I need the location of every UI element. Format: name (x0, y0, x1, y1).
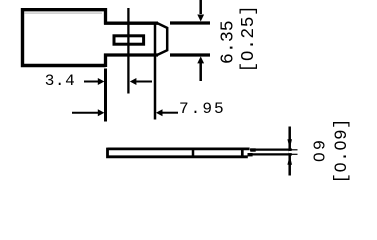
svg-text:3.4: 3.4 (45, 72, 76, 90)
svg-text:[0.25]: [0.25] (239, 5, 259, 73)
svg-text:[0.09]: [0.09] (332, 118, 352, 183)
svg-text:09: 09 (312, 138, 331, 162)
svg-text:7.95: 7.95 (179, 100, 226, 118)
svg-text:6.35: 6.35 (218, 20, 238, 64)
